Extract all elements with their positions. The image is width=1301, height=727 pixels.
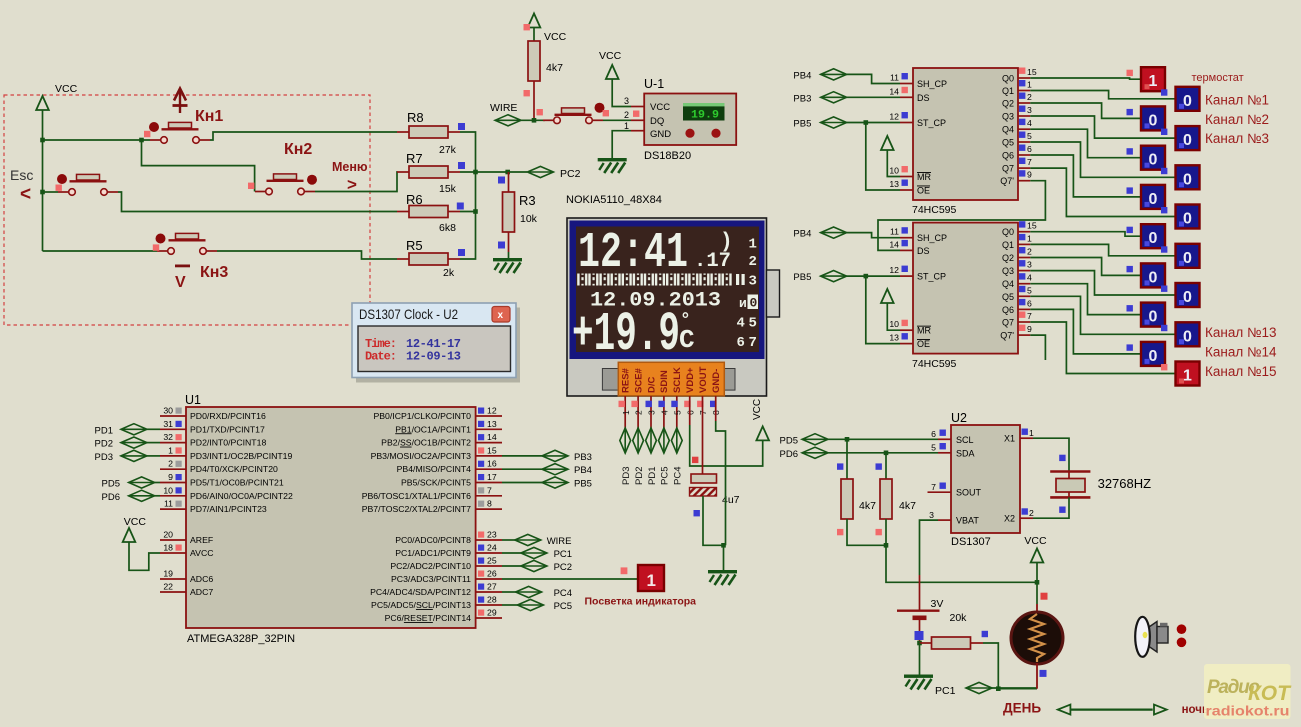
- button Esc: [58, 174, 118, 195]
- svg-text:0: 0: [1149, 191, 1158, 208]
- svg-text:0: 0: [1149, 348, 1158, 365]
- svg-text:1: 1: [168, 445, 173, 455]
- svg-text:PB4: PB4: [793, 229, 811, 240]
- svg-text:Кн3: Кн3: [200, 264, 228, 281]
- wire row1 to Kn1: [43, 139, 151, 141]
- svg-text:0: 0: [1149, 112, 1158, 129]
- svg-text:PB3/MOSI/OC2A/PCINT3: PB3/MOSI/OC2A/PCINT3: [371, 451, 472, 461]
- resistor R7: [397, 166, 460, 178]
- svg-text:0: 0: [1149, 269, 1158, 286]
- svg-text:12: 12: [889, 112, 899, 122]
- svg-text:PB2/SS/OC1B/PCINT2: PB2/SS/OC1B/PCINT2: [381, 438, 471, 448]
- svg-text:Q5: Q5: [1002, 292, 1014, 302]
- svg-text:VCC: VCC: [650, 102, 670, 113]
- svg-text:Канал №3: Канал №3: [1205, 131, 1269, 146]
- svg-text:6: 6: [1027, 298, 1032, 308]
- state square channel 7: [1161, 207, 1167, 213]
- crystal X1 32768HZ: [1050, 472, 1090, 498]
- svg-text:PC0/ADC0/PCINT8: PC0/ADC0/PCINT8: [395, 535, 471, 545]
- svg-text:PD2/INT0/PCINT18: PD2/INT0/PCINT18: [190, 438, 266, 448]
- state square channel 13: [1161, 325, 1167, 331]
- wire Q4 to channel box 12: [1030, 284, 1141, 315]
- wire PB5 to ST_CP #2: [847, 275, 900, 277]
- pin names 595#1: [917, 79, 947, 196]
- svg-text:29: 29: [487, 608, 497, 618]
- wire LCD pin7 to cap: [702, 396, 704, 474]
- svg-text:PC3/ADC3/PCINT11: PC3/ADC3/PCINT11: [391, 574, 471, 584]
- icon up-arrow Kn1: [173, 89, 188, 114]
- state square channel 1: [1161, 89, 1167, 95]
- svg-text:PD6/AIN0/OC0A/PCINT22: PD6/AIN0/OC0A/PCINT22: [190, 491, 293, 501]
- svg-text:SOUT: SOUT: [956, 488, 982, 498]
- svg-text:SH_CP: SH_CP: [917, 79, 947, 89]
- wire PB3: [502, 455, 542, 457]
- state square battery node: [915, 631, 924, 640]
- button Kn2: [255, 174, 315, 195]
- svg-text:Q5: Q5: [1002, 138, 1014, 148]
- state square channel 8: [1127, 227, 1133, 233]
- svg-text:PD3: PD3: [621, 467, 632, 485]
- svg-text:6: 6: [737, 335, 745, 351]
- wire PB3 to DS #1: [847, 96, 900, 98]
- svg-text:Q7: Q7: [1002, 318, 1014, 328]
- wire resistor bus vertical: [460, 132, 476, 259]
- state square R7: [458, 162, 465, 169]
- svg-text:PB7/TOSC2/XTAL2/PCINT7: PB7/TOSC2/XTAL2/PCINT7: [362, 504, 471, 514]
- terminal PB4 595#2: [821, 227, 847, 238]
- state square channel 15: [1161, 364, 1167, 370]
- button Kn2 state square: [248, 183, 254, 189]
- pin leads U1 right: [476, 416, 502, 618]
- svg-text:0: 0: [1183, 328, 1192, 345]
- svg-text:ADC7: ADC7: [190, 587, 213, 597]
- svg-text:16: 16: [487, 459, 497, 469]
- svg-text:OE: OE: [917, 339, 930, 349]
- resistor R3: [503, 172, 515, 252]
- svg-text:Q1: Q1: [1002, 86, 1014, 96]
- svg-text:13: 13: [889, 333, 899, 343]
- svg-text:Q3: Q3: [1002, 112, 1014, 122]
- wire PD1: [147, 428, 160, 430]
- indicator channel box 13: [1176, 322, 1200, 346]
- state square R3 top: [498, 177, 505, 184]
- svg-text:PB5: PB5: [574, 479, 592, 490]
- wire VCC node to LDR top: [1036, 582, 1038, 604]
- wire Q5 to channel box 13: [1030, 296, 1175, 334]
- svg-text:Q7: Q7: [1002, 164, 1014, 174]
- node keypad row2 junction: [40, 190, 45, 195]
- pin names U2 right: [1004, 434, 1015, 524]
- state squares 595#1 right: [1019, 68, 1025, 177]
- svg-text:0: 0: [1183, 132, 1192, 149]
- node PB5 junction #2: [864, 274, 869, 279]
- resistor R5: [397, 253, 460, 265]
- terminal LCD pin5 PC4: [671, 428, 682, 453]
- svg-text:MR: MR: [917, 172, 931, 182]
- LCD screen glass: [576, 227, 759, 353]
- terminal PC4 U1: [516, 586, 542, 597]
- wire 20k to PC1 node: [983, 643, 998, 689]
- node bus R6 junction: [473, 209, 478, 214]
- LCD module frame: [567, 218, 767, 396]
- svg-text:2: 2: [634, 410, 644, 415]
- popup client panel: [358, 326, 511, 372]
- wire VCC to MR #2: [887, 303, 900, 330]
- svg-text:7: 7: [931, 482, 936, 492]
- wire Q1 to channel box 1: [1030, 91, 1175, 99]
- state squares U1 left pins: [176, 408, 182, 551]
- power VCC LDR arrow: [1031, 549, 1044, 563]
- terminal PC2: [527, 166, 553, 177]
- svg-text:SDA: SDA: [956, 448, 975, 458]
- svg-text:6: 6: [1027, 144, 1032, 154]
- state squares U1 right pins: [478, 408, 484, 616]
- svg-text:radiokot.ru: radiokot.ru: [1206, 704, 1290, 719]
- state square channel 3: [1161, 129, 1167, 135]
- svg-text:MR: MR: [917, 326, 931, 336]
- svg-text:PC5: PC5: [660, 467, 671, 485]
- terminal PB5 595#2: [821, 271, 847, 282]
- power VCC MR #2 arrow: [881, 289, 894, 303]
- svg-text:Q6: Q6: [1002, 151, 1014, 161]
- svg-text:0: 0: [1149, 230, 1158, 247]
- svg-text:3: 3: [1027, 260, 1032, 270]
- display U-1 temperature readout: [683, 103, 725, 122]
- power VCC AVCC arrow: [123, 528, 136, 542]
- svg-text:Q2: Q2: [1002, 253, 1014, 263]
- IC U1 ATMEGA328P body: [186, 407, 476, 628]
- LCD connector block: [618, 362, 724, 396]
- pin numbers U1 left: [163, 406, 173, 592]
- svg-text:C: C: [679, 325, 695, 355]
- svg-text:VBAT: VBAT: [956, 516, 979, 526]
- svg-text:5: 5: [1027, 131, 1032, 141]
- node SDA pullup junction: [884, 451, 889, 456]
- indicator dot U-1 b: [711, 129, 720, 138]
- svg-text:PC4: PC4: [673, 467, 684, 485]
- wire PB5 to OE #2: [866, 276, 900, 344]
- LCD lower inset left: [602, 369, 620, 391]
- svg-text:PC2/ADC2/PCINT10: PC2/ADC2/PCINT10: [390, 561, 471, 571]
- wire PB5 to ST_CP #1: [847, 122, 900, 124]
- wire Q2 to channel box 10: [1030, 258, 1141, 276]
- wire LCD pin6 VDD to VCC: [689, 396, 691, 425]
- state squares U2 pins: [940, 429, 1028, 515]
- svg-text:PB3: PB3: [793, 93, 811, 104]
- wire row2 to Esc button: [43, 191, 59, 193]
- wire Q5 to channel box 5: [1030, 142, 1175, 177]
- svg-text:PC5: PC5: [554, 601, 572, 612]
- state square channel 12: [1127, 305, 1133, 311]
- svg-text:WIRE: WIRE: [490, 102, 517, 114]
- node PC2 junction: [505, 170, 510, 175]
- svg-text:9: 9: [1027, 170, 1032, 180]
- svg-text:PB6/TOSC1/XTAL1/PCINT6: PB6/TOSC1/XTAL1/PCINT6: [362, 491, 471, 501]
- pin numbers 595#2 right: [1027, 221, 1037, 334]
- indicator channel box 2: [1141, 106, 1165, 130]
- indicator channel box 5: [1176, 165, 1200, 189]
- svg-text:32768HZ: 32768HZ: [1098, 476, 1152, 491]
- svg-text:22: 22: [163, 582, 173, 592]
- svg-text:4: 4: [1027, 118, 1032, 128]
- wire row3 to Kn3: [43, 250, 158, 252]
- icon down-V Kn3: [175, 265, 190, 292]
- svg-text:24: 24: [487, 543, 497, 553]
- wire Q7 to channel box 15: [1030, 322, 1175, 374]
- state square crystal top: [1059, 455, 1065, 461]
- pin leads 595#1 right: [1018, 78, 1030, 181]
- svg-text:PB3: PB3: [574, 452, 592, 463]
- battery BT1 3V: [897, 575, 940, 643]
- state square VCC 4k7: [524, 24, 530, 30]
- wire Q7' #1 to DS #2: [878, 181, 1045, 251]
- svg-text:U-1: U-1: [644, 77, 664, 91]
- wire to LCD ground: [723, 545, 725, 570]
- terminal LCD pin2 PD2: [633, 428, 644, 453]
- svg-text:1: 1: [1027, 233, 1032, 243]
- svg-text:AVCC: AVCC: [190, 548, 214, 558]
- state square channel 10: [1127, 266, 1133, 272]
- state square LDR bottom: [1040, 670, 1047, 677]
- svg-text:4: 4: [737, 316, 745, 332]
- wire VBAT to battery: [920, 520, 939, 575]
- IC U4 74HC595 #2 body: [913, 223, 1018, 354]
- svg-text:R7: R7: [406, 151, 423, 166]
- wire PC4: [502, 591, 516, 593]
- state square channel 9: [1161, 246, 1167, 252]
- LCD pin state squares: [619, 401, 717, 407]
- svg-text:5: 5: [931, 443, 936, 453]
- power VCC 4k7 arrow: [528, 14, 541, 28]
- svg-text:AREF: AREF: [190, 535, 213, 545]
- state square 20k right: [982, 631, 988, 637]
- svg-text:PD3/INT1/OC2B/PCINT19: PD3/INT1/OC2B/PCINT19: [190, 451, 293, 461]
- pin numbers U2: [929, 429, 936, 520]
- popup window DS1307 Clock frame: [352, 303, 516, 378]
- indicator backlight box: [638, 565, 664, 591]
- svg-text:10: 10: [163, 485, 173, 495]
- svg-text:PD5: PD5: [780, 435, 798, 446]
- svg-text:18: 18: [163, 543, 173, 553]
- svg-text:Q1: Q1: [1002, 240, 1014, 250]
- svg-text:15k: 15k: [439, 183, 457, 195]
- wire crystal to X2: [1033, 497, 1069, 518]
- svg-text:19: 19: [163, 569, 173, 579]
- capacitor C1 4u7: [690, 474, 717, 496]
- svg-text:27k: 27k: [439, 144, 457, 156]
- node Kn1 left junction: [139, 138, 144, 143]
- svg-text:VCC: VCC: [544, 31, 567, 43]
- svg-text:R3: R3: [519, 193, 536, 208]
- terminal PB5 U1: [542, 477, 568, 488]
- wire U-1 pin1 to ground: [612, 131, 631, 158]
- ground LCD: [708, 570, 737, 585]
- svg-text:15: 15: [1027, 67, 1037, 77]
- svg-text:RES#: RES#: [621, 367, 632, 393]
- svg-text:Q2: Q2: [1002, 99, 1014, 109]
- svg-text:1: 1: [621, 410, 631, 415]
- indicator channel box 7: [1176, 205, 1200, 229]
- svg-text:КОТ: КОТ: [1248, 682, 1292, 705]
- keypad dashed selection box: [4, 95, 370, 325]
- terminal PC1: [966, 682, 992, 693]
- node SCL pullup junction: [845, 437, 850, 442]
- indicator channel box 1: [1176, 87, 1200, 111]
- svg-text:PD1/TXD/PCINT17: PD1/TXD/PCINT17: [190, 424, 265, 434]
- state squares 595#2 left: [902, 227, 908, 339]
- wire PD6: [155, 495, 160, 497]
- terminal PB3 595#1: [821, 92, 847, 103]
- popup window shadow: [356, 308, 520, 383]
- svg-text:3V: 3V: [931, 598, 944, 610]
- svg-text:7: 7: [749, 335, 757, 351]
- wire LCD pin8 GND: [715, 396, 717, 421]
- wire SDA to pullup R2: [885, 453, 887, 480]
- svg-text:PD6: PD6: [102, 492, 120, 503]
- pin lead U-1 pin2: [631, 119, 644, 121]
- svg-text:x: x: [498, 310, 504, 321]
- state square channel 11: [1161, 286, 1167, 292]
- node keypad row1 junction: [40, 138, 45, 143]
- wire PD3: [147, 455, 160, 457]
- state square channel 6: [1127, 187, 1133, 193]
- svg-text:5: 5: [672, 410, 682, 415]
- svg-text:12-09-13: 12-09-13: [406, 350, 461, 364]
- svg-text:Кн2: Кн2: [284, 141, 312, 158]
- svg-text:ДЕНЬ: ДЕНЬ: [1003, 701, 1041, 716]
- power VCC LCD arrow: [756, 426, 769, 440]
- svg-text:PD2: PD2: [634, 467, 645, 485]
- state square R3 bottom: [498, 242, 505, 249]
- wire Kn1 to R8: [210, 132, 397, 140]
- svg-text:1: 1: [1149, 73, 1158, 90]
- svg-text:U1: U1: [185, 393, 201, 407]
- wire Q0 to channel box 8: [1030, 232, 1141, 237]
- svg-text:0: 0: [1183, 250, 1192, 267]
- wire PB5 to OE #1: [866, 123, 900, 191]
- wire Q3 to channel box 11: [1030, 271, 1175, 295]
- arrow indicator day-night: [1058, 705, 1167, 715]
- button Kn3 state square: [153, 244, 159, 250]
- svg-text:Посветка индикатора: Посветка индикатора: [585, 596, 697, 608]
- wire button to U-1 DQ pin: [603, 119, 631, 121]
- wire VCC to AVCC: [129, 542, 160, 570]
- svg-text:DS: DS: [917, 93, 930, 103]
- svg-text:0: 0: [1183, 171, 1192, 188]
- svg-text:R5: R5: [406, 238, 423, 253]
- terminal LCD pin4 PC5: [659, 428, 670, 453]
- pin numbers 595#1 right: [1027, 67, 1037, 180]
- svg-text:ATMEGA328P_32PIN: ATMEGA328P_32PIN: [187, 633, 295, 645]
- svg-text:ADC6: ADC6: [190, 574, 213, 584]
- svg-text:0: 0: [750, 296, 758, 311]
- wire PB5: [502, 482, 542, 484]
- state square pullup R1 top: [837, 463, 843, 469]
- wire R3 to ground: [508, 252, 510, 258]
- terminal PB5 595#1: [821, 117, 847, 128]
- wire PD6 to SDA: [828, 452, 938, 454]
- svg-text:DS1307: DS1307: [951, 536, 991, 548]
- state square channel 2: [1127, 109, 1133, 115]
- svg-text:1: 1: [647, 571, 656, 590]
- wire cap to ground node: [703, 496, 723, 545]
- svg-text:R6: R6: [406, 192, 423, 207]
- terminal PC2 U1: [521, 560, 547, 571]
- state square LDR top: [1041, 593, 1048, 600]
- svg-text:26: 26: [487, 569, 497, 579]
- svg-text:15: 15: [487, 445, 497, 455]
- svg-text:PD4/T0/XCK/PCINT20: PD4/T0/XCK/PCINT20: [190, 464, 278, 474]
- terminal LCD pin3 PD1: [646, 428, 657, 453]
- svg-text:WIRE: WIRE: [547, 536, 572, 547]
- terminal PD3 U1: [121, 450, 147, 461]
- node bus R7 junction: [473, 170, 478, 175]
- svg-text:VCC: VCC: [752, 399, 763, 420]
- svg-text:PD1: PD1: [647, 467, 658, 485]
- svg-text:PB5: PB5: [793, 119, 811, 130]
- svg-text:VCC: VCC: [1024, 535, 1047, 547]
- svg-text:SCE#: SCE#: [633, 367, 644, 393]
- svg-text:PB4: PB4: [793, 70, 811, 81]
- svg-text:2: 2: [168, 459, 173, 469]
- indicator channel box 0: [1141, 67, 1165, 91]
- svg-text:Q4: Q4: [1002, 279, 1014, 289]
- svg-text:5: 5: [749, 316, 757, 332]
- svg-text:17: 17: [487, 472, 497, 482]
- terminal PD5 U1: [129, 477, 155, 488]
- pin names U2: [956, 435, 982, 526]
- svg-text:2: 2: [1027, 247, 1032, 257]
- wire VCC to MR #1: [887, 150, 900, 177]
- resistor R8: [397, 126, 460, 138]
- svg-text:Q6: Q6: [1002, 305, 1014, 315]
- node LCD ground junction: [721, 543, 726, 548]
- svg-text:32: 32: [163, 432, 173, 442]
- resistor R6: [397, 206, 460, 218]
- resistor 4k7 pullup DQ: [528, 41, 540, 120]
- speaker pin dot b: [1177, 638, 1187, 648]
- button Esc state square: [56, 185, 62, 191]
- pin numbers 595#1 left: [889, 73, 899, 190]
- pin lead U-1 pin1: [631, 130, 644, 132]
- wire bus to PC2: [476, 171, 528, 173]
- button DQ state square: [603, 110, 609, 116]
- svg-text:13: 13: [487, 419, 497, 429]
- wire PB4 to SH_CP #1: [847, 74, 900, 83]
- wire WIRE bus to button: [521, 119, 545, 121]
- svg-text:PB5: PB5: [793, 272, 811, 283]
- svg-text:1: 1: [749, 237, 757, 253]
- resistor pullup R1 4k7: [841, 479, 853, 519]
- state square channel 5: [1161, 168, 1167, 174]
- LCD bar row: [577, 274, 732, 286]
- LDR photoresistor: [1011, 604, 1063, 689]
- svg-text:Кн1: Кн1: [195, 108, 223, 125]
- svg-text:PD2: PD2: [95, 439, 113, 450]
- pin numbers 595#2 left: [889, 227, 899, 343]
- pin leads 595#1 left: [900, 84, 913, 191]
- pin names 595#2 Q: [1000, 227, 1014, 340]
- wire Kn1 junction to Kn2: [142, 140, 255, 192]
- state square cap bottom: [694, 510, 700, 516]
- indicator channel box 3: [1176, 126, 1200, 150]
- button Kn1: [150, 122, 210, 143]
- svg-text:PC6/RESET/PCINT14: PC6/RESET/PCINT14: [385, 613, 472, 623]
- wire PC1 to LDR bottom: [992, 687, 1037, 690]
- svg-text:13: 13: [889, 179, 899, 189]
- svg-text:Q0: Q0: [1002, 227, 1014, 237]
- svg-text:PD5/T1/OC0B/PCINT21: PD5/T1/OC0B/PCINT21: [190, 478, 284, 488]
